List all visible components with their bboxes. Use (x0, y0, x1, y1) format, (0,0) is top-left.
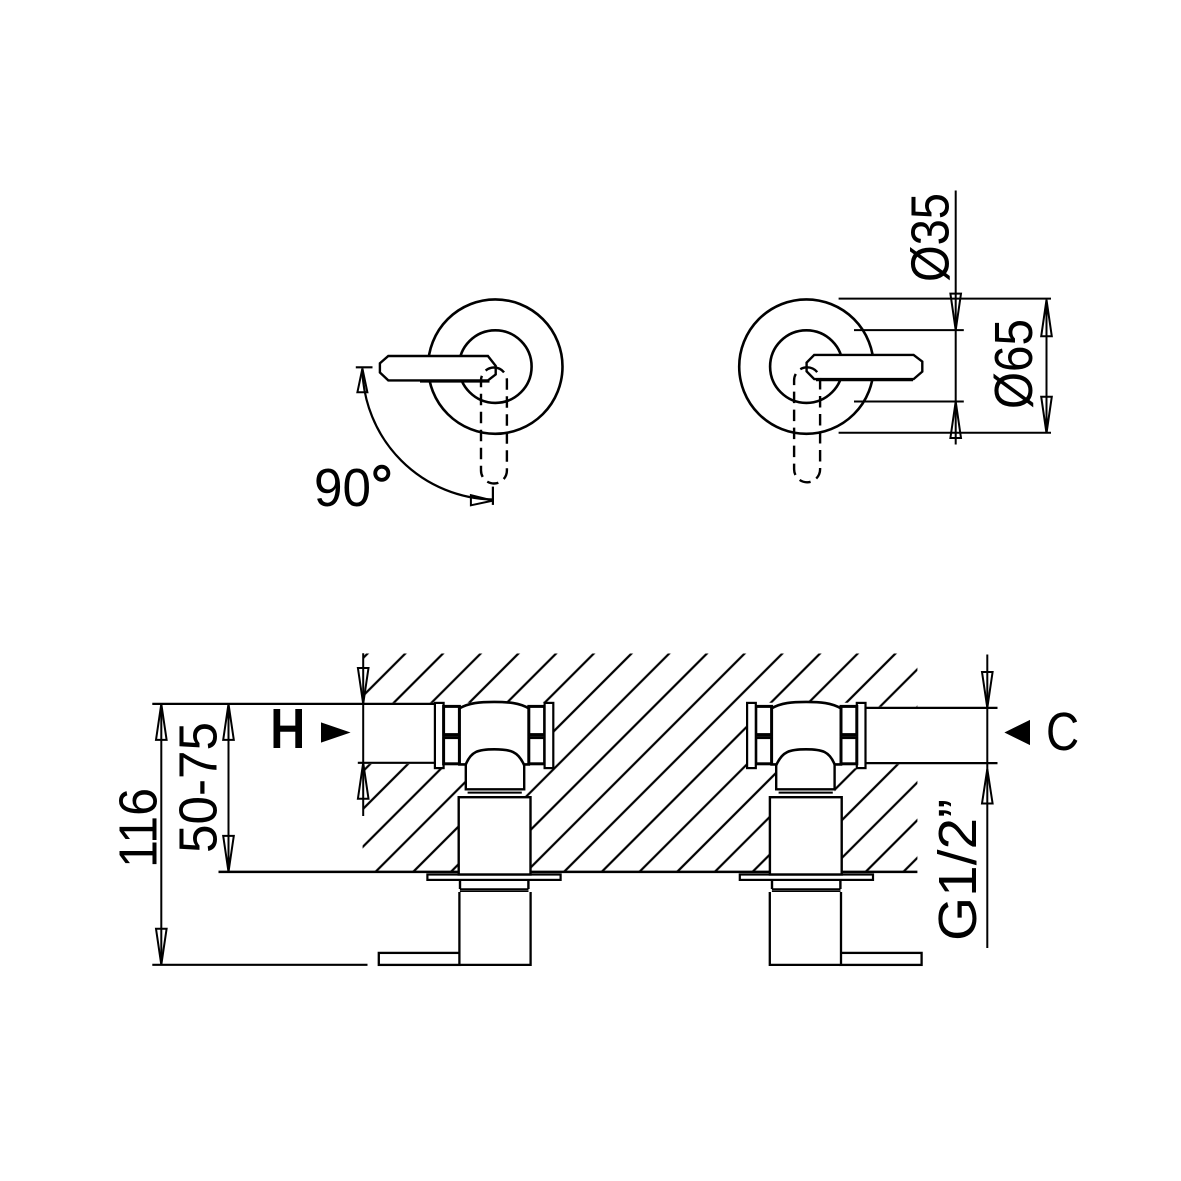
C dim upper arrowhead (982, 672, 993, 708)
arc bottom arrowhead (471, 495, 493, 505)
50-75 dimension line (228, 704, 230, 872)
label H (274, 709, 303, 748)
left pipe channel cutout (363, 703, 436, 764)
right valve hatch cutout (747, 703, 865, 872)
dia65 dimension line (1046, 300, 1048, 433)
C arrow marker (1004, 720, 1030, 745)
left rosette outer circle (428, 299, 562, 433)
116 dimension line (160, 704, 162, 965)
dia35 dimension line (955, 191, 957, 445)
right pipe channel cutout (865, 707, 918, 765)
extension line inner circle top (854, 329, 964, 331)
left handle under-edge line (420, 381, 490, 383)
arc top tick (356, 366, 373, 368)
116 top arrowhead (156, 704, 167, 740)
svg-text:C: C (1046, 702, 1079, 762)
dia35 upper arrowhead (950, 294, 961, 331)
extension line outer circle bottom (839, 432, 1051, 434)
right rosette outer circle (739, 299, 873, 433)
right valve assembly (cold), mirrored (740, 702, 922, 965)
left valve hatch cutout (435, 703, 553, 872)
right lever handle (807, 355, 923, 379)
50-75 bottom arrowhead (223, 836, 234, 872)
bottom extension line (152, 964, 367, 966)
wall face line (219, 871, 918, 874)
left valve assembly (hot) (379, 702, 561, 965)
right handle rotated position (dashed) (794, 367, 820, 482)
arc bottom reference line (492, 487, 494, 505)
116 bottom arrowhead (156, 929, 167, 965)
hot inlet channel top line / dimension extension (152, 703, 435, 705)
right handle under-edge line (816, 379, 913, 381)
H small dimension line (362, 653, 364, 816)
cold inlet channel bottom line (865, 762, 998, 764)
50-75 top arrowhead (223, 704, 234, 740)
C dim lower arrowhead (982, 769, 993, 804)
dia65 upper arrowhead (1041, 300, 1052, 337)
arc top arrowhead (357, 369, 367, 393)
dia65 lower arrowhead (1041, 397, 1052, 434)
C dimension line (986, 655, 988, 949)
left rosette inner circle (459, 330, 532, 403)
wall hatching band (363, 654, 918, 872)
left lever handle (380, 356, 496, 380)
H dim lower arrowhead (358, 763, 369, 799)
degree ring (375, 467, 388, 480)
extension line inner circle bottom (854, 401, 964, 403)
svg-text:G1/2”: G1/2” (928, 799, 988, 941)
svg-text:90: 90 (314, 458, 371, 518)
svg-text:Ø35: Ø35 (901, 193, 961, 282)
90 degree arc (362, 369, 493, 500)
cold inlet channel top line (865, 707, 998, 709)
svg-text:50-75: 50-75 (169, 722, 229, 853)
extension line outer circle top (839, 298, 1051, 300)
dia35 lower arrowhead (950, 402, 961, 439)
svg-text:Ø65: Ø65 (984, 319, 1044, 409)
hot inlet channel bottom line (358, 762, 435, 764)
H arrow marker (321, 722, 351, 742)
H dim upper arrowhead (358, 668, 369, 704)
svg-text:116: 116 (109, 788, 169, 868)
left handle rotated position (dashed) (481, 368, 507, 484)
right rosette inner circle (770, 330, 843, 403)
